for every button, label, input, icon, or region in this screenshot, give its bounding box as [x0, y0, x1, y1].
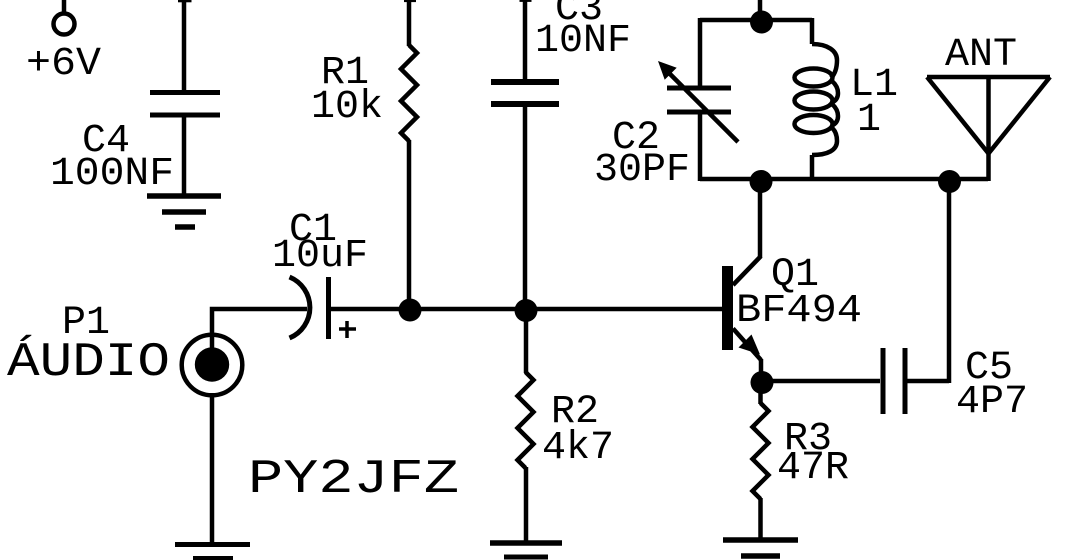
svg-text:PY2JFZ: PY2JFZ: [248, 453, 459, 507]
svg-text:10NF: 10NF: [535, 19, 631, 64]
svg-text:30PF: 30PF: [594, 148, 690, 193]
svg-text:ÁUDIO: ÁUDIO: [7, 335, 170, 390]
svg-text:+6V: +6V: [26, 42, 101, 87]
svg-text:4k7: 4k7: [542, 426, 614, 471]
svg-text:10uF: 10uF: [272, 234, 368, 279]
svg-text:47R: 47R: [777, 446, 849, 491]
svg-text:ANT: ANT: [945, 33, 1017, 78]
svg-text:1: 1: [857, 98, 881, 143]
svg-text:10k: 10k: [311, 85, 383, 130]
svg-text:100NF: 100NF: [50, 152, 174, 197]
svg-text:BF494: BF494: [736, 289, 862, 334]
svg-text:4P7: 4P7: [956, 380, 1028, 425]
